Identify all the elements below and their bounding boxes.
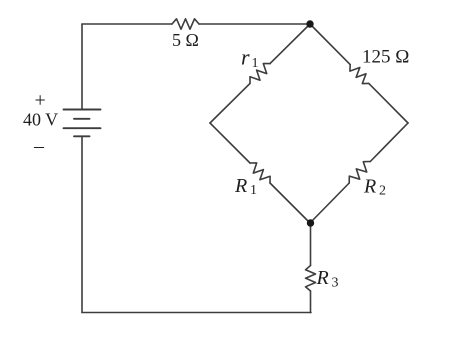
- svg-text:R: R: [363, 176, 376, 198]
- wire bridge upper-left: top node to r1: [270, 24, 310, 64]
- wire bridge lower-left: left vertex to R1: [210, 123, 250, 163]
- battery 40 V: [64, 110, 101, 137]
- node junction dot bottom: [307, 219, 314, 226]
- wire bridge lower-right: R2 to right vertex: [370, 123, 408, 162]
- svg-text:3: 3: [332, 276, 339, 291]
- wire bottom horizontal: [82, 312, 311, 314]
- resistor r1: [250, 64, 270, 84]
- wire bridge lower-right: bottom node to R2: [310, 183, 349, 223]
- wire bridge upper-left: r1 to left vertex: [210, 83, 250, 123]
- svg-text:+: +: [35, 89, 46, 111]
- svg-text:40 V: 40 V: [23, 110, 58, 130]
- svg-text:1: 1: [252, 56, 259, 71]
- wire bridge upper-right: 125-ohm resistor to right vertex: [369, 83, 408, 123]
- wire bridge upper-right: top node to 125-ohm resistor: [310, 24, 350, 65]
- resistor 5 ohm: [172, 19, 199, 29]
- wire left vertical from battery negative plate to bottom corner: [81, 136, 83, 312]
- svg-text:R: R: [316, 267, 329, 289]
- svg-text:2: 2: [379, 184, 386, 199]
- resistor R2: [349, 162, 370, 184]
- svg-text:r: r: [241, 45, 250, 70]
- wire left vertical from top corner to battery positive plate: [81, 24, 83, 110]
- node junction dot top: [306, 20, 313, 27]
- resistor R1: [250, 163, 270, 183]
- svg-text:5 Ω: 5 Ω: [172, 30, 199, 50]
- wire from bottom wire up to R3: [310, 291, 312, 313]
- resistor 125 ohm: [350, 65, 369, 84]
- svg-text:R: R: [234, 175, 247, 197]
- wire top from left corner to 5-ohm resistor: [82, 23, 172, 25]
- wire top from 5-ohm resistor to top node: [199, 23, 310, 25]
- resistor R3: [306, 266, 316, 292]
- wire from R3 up to bottom node: [310, 223, 312, 266]
- wire bridge lower-left: R1 to bottom node: [270, 183, 310, 223]
- svg-text:125 Ω: 125 Ω: [362, 47, 409, 68]
- svg-text:1: 1: [250, 183, 257, 198]
- svg-text:–: –: [33, 135, 45, 157]
